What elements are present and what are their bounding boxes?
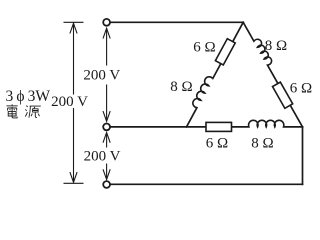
svg-text:6 Ω: 6 Ω <box>193 40 215 56</box>
wire delta right branch lower segment <box>267 65 302 127</box>
inductor 8ohm left branch <box>193 77 213 108</box>
wire delta left branch upper segment <box>213 22 244 78</box>
node terminal top <box>103 19 110 26</box>
resistor 6ohm bottom branch <box>206 122 232 131</box>
svg-text:200 V: 200 V <box>83 68 120 84</box>
wire middle line left segment <box>110 126 249 128</box>
wire right vertical <box>302 127 304 184</box>
wire top line <box>110 21 243 23</box>
resistor 6ohm left branch <box>215 39 235 65</box>
svg-text:6 Ω: 6 Ω <box>290 81 312 97</box>
resistor 6ohm right branch <box>273 82 293 108</box>
dimension arrow 200V bottom gap <box>103 133 110 180</box>
svg-text:8 Ω: 8 Ω <box>170 79 192 95</box>
svg-text:8 Ω: 8 Ω <box>251 136 273 152</box>
inductor 8ohm bottom branch <box>249 120 284 127</box>
svg-text:200 V: 200 V <box>84 149 121 165</box>
node terminal middle <box>103 124 110 131</box>
wire delta left branch lower segment <box>187 108 197 127</box>
inductor 8ohm right branch <box>254 39 272 65</box>
wire bottom line <box>110 183 302 185</box>
svg-text:200 V: 200 V <box>51 94 88 110</box>
node terminal bottom <box>103 181 110 188</box>
wire delta right branch upper segment <box>243 22 254 41</box>
kanji DEN (electric) drawn as strokes <box>7 104 18 118</box>
dimension arrow 200V top gap <box>103 28 110 121</box>
svg-text:3 ϕ 3W: 3 ϕ 3W <box>6 88 51 105</box>
dimension long arrow 200V full span <box>64 22 84 183</box>
svg-text:8 Ω: 8 Ω <box>265 38 287 54</box>
kanji GEN (source) drawn as strokes <box>25 106 41 118</box>
svg-text:6 Ω: 6 Ω <box>206 136 228 152</box>
wire bottom branch right segment <box>283 126 302 128</box>
